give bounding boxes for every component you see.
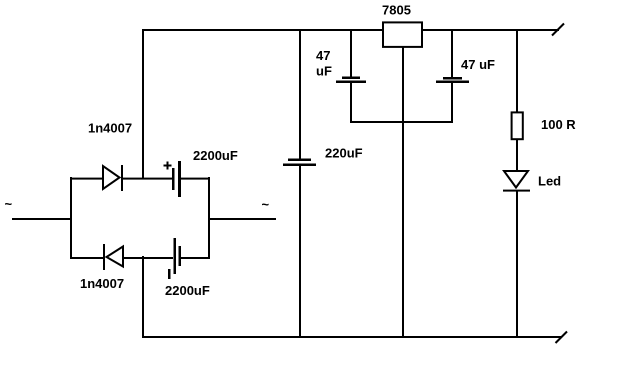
svg-text:uF: uF — [316, 64, 332, 79]
capacitor C2 polarity tick — [168, 269, 171, 279]
svg-text:Led: Led — [538, 174, 561, 189]
capacitor C1 plus sign — [164, 165, 172, 167]
wire top side between D1 and C1 — [122, 178, 173, 180]
capacitor C3 top plate — [288, 159, 311, 162]
capacitor C5 top plate — [443, 77, 462, 80]
wire C5 riser from top rail — [451, 29, 453, 79]
wire bottom side left of D2 — [70, 257, 104, 259]
wire C4 riser from top rail — [350, 29, 352, 78]
continuation slash bottom-right — [556, 332, 568, 344]
wire C5 lower — [451, 83, 453, 123]
capacitor C2 left plate — [174, 238, 177, 274]
continuation slash top-right — [552, 24, 564, 36]
wire bottom side between D2 and C2 — [123, 257, 173, 259]
diode D1 triangle — [103, 166, 120, 189]
wire bridge right edge — [208, 177, 210, 259]
diode D1 cathode bar — [121, 165, 123, 191]
wire top rail left segment — [142, 29, 383, 31]
wire bridge left edge — [70, 177, 72, 259]
wire AC stub right — [208, 218, 276, 220]
svg-text:220uF: 220uF — [325, 146, 363, 161]
wire C4 lower — [350, 83, 352, 123]
svg-text:1n4007: 1n4007 — [88, 121, 132, 136]
wire R1 to LED — [516, 140, 518, 172]
regulator U1 7805 box — [383, 22, 422, 47]
resistor R1 box — [512, 112, 523, 139]
capacitor C1 left plate — [172, 168, 175, 190]
capacitor C1 right plate — [178, 161, 181, 197]
wire C3 to bottom rail — [299, 166, 301, 337]
svg-text:1n4007: 1n4007 — [80, 276, 124, 291]
svg-text:47: 47 — [316, 48, 330, 63]
LED D3 triangle — [504, 171, 528, 188]
LED D3 cathode bar — [503, 190, 530, 192]
wire left riser lower — [142, 256, 144, 338]
svg-text:2200uF: 2200uF — [193, 148, 238, 163]
diode D2 cathode bar — [103, 244, 105, 270]
svg-text:47 uF: 47 uF — [461, 57, 495, 72]
wire U1 ground pin to bottom rail — [402, 47, 404, 337]
wire top side right of C1 — [180, 178, 210, 180]
capacitor C3 bottom plate — [283, 164, 316, 167]
capacitor C4 top plate — [342, 77, 360, 80]
wire C3 riser from top rail — [299, 29, 301, 160]
wire left riser upper — [142, 29, 144, 179]
capacitor C4 bottom plate — [336, 81, 366, 84]
svg-text:100 R: 100 R — [541, 117, 576, 132]
wire AC input left — [12, 218, 71, 220]
svg-text:7805: 7805 — [382, 3, 411, 18]
wire top side left of D1 — [70, 178, 103, 180]
wire LED to bottom rail — [516, 191, 518, 337]
wire R1 riser from top rail — [516, 29, 518, 112]
svg-text:~: ~ — [5, 197, 13, 212]
capacitor C5 bottom plate — [436, 81, 469, 84]
svg-text:2200uF: 2200uF — [165, 283, 210, 298]
wire ground link under 7805 — [350, 121, 453, 123]
wire bottom rail — [142, 336, 562, 338]
diode D2 triangle — [107, 247, 124, 267]
wire top rail right segment — [422, 29, 559, 31]
capacitor C2 right plate — [179, 246, 182, 266]
svg-text:~: ~ — [262, 197, 270, 212]
wire bottom side right of C2 — [180, 257, 210, 259]
